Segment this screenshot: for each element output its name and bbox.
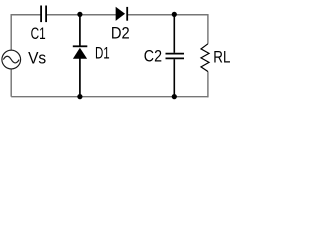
- wire left branch lower: [10, 69, 12, 97]
- label Vs: [28, 50, 46, 68]
- diode D1: [73, 15, 88, 97]
- svg-text:Vs: Vs: [28, 50, 46, 68]
- wire top rail middle segment: [46, 14, 116, 16]
- svg-text:C2: C2: [144, 48, 162, 66]
- wire top rail left segment: [11, 14, 41, 16]
- wire right branch lower: [207, 72, 209, 98]
- wire bottom rail: [11, 96, 208, 98]
- capacitor C2: [166, 15, 185, 97]
- label RL: [213, 49, 230, 67]
- node D bottom of C2: [172, 94, 177, 99]
- label C1: [31, 25, 46, 43]
- svg-text:C1: C1: [31, 25, 46, 43]
- wire right branch upper: [207, 14, 209, 44]
- wire top rail right segment: [127, 14, 208, 16]
- capacitor C1: [41, 6, 46, 23]
- resistor RL: [201, 44, 209, 72]
- svg-text:RL: RL: [213, 49, 230, 67]
- wire left branch upper: [10, 14, 12, 50]
- node B top of C2: [172, 12, 177, 17]
- diode D2: [116, 7, 127, 21]
- svg-text:D1: D1: [95, 45, 110, 63]
- node C bottom of D1: [77, 94, 82, 99]
- label D2: [111, 24, 130, 42]
- svg-text:D2: D2: [111, 24, 130, 42]
- label D1: [95, 45, 110, 63]
- AC source Vs: [2, 50, 21, 69]
- node A top of D1: [77, 12, 82, 17]
- label C2: [144, 48, 162, 66]
